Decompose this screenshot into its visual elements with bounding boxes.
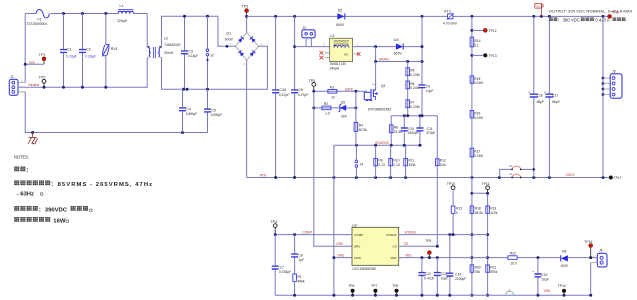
connector J6	[591, 249, 607, 296]
wire: bridge - output down to RTN rail	[246, 60, 248, 177]
svg-text:U3: U3	[352, 224, 356, 228]
resistor R10 0.13	[389, 145, 400, 177]
chassis ground symbol	[28, 133, 37, 144]
node: earth rail junctions	[31, 131, 184, 134]
node: D4 cathode junctions	[421, 45, 424, 63]
svg-text:TP8: TP8	[392, 284, 398, 288]
resistor R5 0.24M	[406, 62, 420, 116]
test point TP8	[392, 284, 398, 295]
resistor R4 62.5k	[354, 122, 367, 132]
node: R2/D5 branch junctions	[312, 106, 357, 109]
svg-text:R10: R10	[393, 159, 399, 163]
svg-text:TP12: TP12	[489, 29, 497, 33]
test point TP17	[609, 176, 622, 181]
wire: RTN rail	[247, 177, 611, 179]
svg-text:NOTES:: NOTES:	[14, 155, 29, 160]
svg-text:R14: R14	[475, 39, 481, 43]
svg-text:36.5k: 36.5k	[475, 211, 483, 215]
svg-text:TP7: TP7	[371, 284, 377, 288]
svg-text:+: +	[544, 90, 546, 94]
node: R19 column junctions	[486, 192, 489, 297]
svg-text:+: +	[532, 270, 534, 274]
capacitor C8 1uF	[291, 235, 304, 274]
node: L3 input junction	[293, 45, 296, 48]
svg-text:3.74M: 3.74M	[474, 154, 483, 158]
svg-text:DRV: DRV	[336, 242, 344, 246]
text: note line output voltage chinese	[14, 206, 92, 214]
svg-text:C12: C12	[425, 272, 431, 276]
wire: R2/D5 branch	[314, 107, 356, 109]
transistor Q1 STF28N60DM2	[364, 84, 391, 112]
resistor R19 120k	[486, 193, 498, 295]
text: note line input voltage chinese	[14, 180, 152, 188]
jumper J9 on RTN rail	[509, 172, 522, 179]
capacitor C17 68uF output	[544, 16, 560, 177]
svg-text:RTN: RTN	[260, 173, 267, 177]
resistor R13 0	[451, 206, 462, 235]
svg-text:20mH: 20mH	[164, 51, 174, 55]
node: RTN rail junctions	[274, 176, 604, 179]
node: neutral junctions	[43, 86, 108, 89]
svg-text:TP15: TP15	[584, 240, 592, 244]
svg-text:C4: C4	[186, 107, 191, 111]
svg-text:VOSNS: VOSNS	[386, 233, 397, 237]
node: COMP junction at C8 branch	[293, 233, 296, 236]
svg-text:SOURCE: SOURCE	[375, 141, 389, 145]
svg-text:+: +	[528, 90, 530, 94]
capacitor C6 0.47uF	[291, 47, 308, 178]
svg-text:STF28N60DM2: STF28N60DM2	[368, 108, 392, 112]
capacitor C2 0.33uF	[79, 14, 96, 88]
test point TP5	[309, 79, 316, 92]
PFC inductor L3 760817130 240uH	[319, 34, 360, 70]
node: GND junction	[332, 256, 335, 259]
svg-text:C16: C16	[279, 88, 286, 92]
capacitor C14 2200pF	[446, 235, 466, 296]
test point TP7	[371, 284, 377, 295]
test point TP15	[584, 240, 592, 258]
svg-text:J4: J4	[360, 162, 364, 166]
svg-text:30V: 30V	[341, 115, 348, 119]
test point TP6	[348, 284, 354, 295]
svg-text:R12: R12	[440, 159, 446, 163]
svg-text:DRAIN: DRAIN	[379, 57, 390, 61]
svg-text:TP9: TP9	[425, 239, 431, 243]
wire: J1 pin3 down to earth rail	[25, 92, 207, 133]
resistor R11 453k	[404, 145, 416, 177]
resistor R14 5.1	[470, 37, 481, 47]
wire: gate line from TP5 to Q1 gate	[314, 90, 367, 92]
svg-text:TP2: TP2	[39, 76, 46, 80]
svg-text:68µF: 68µF	[552, 100, 560, 104]
svg-text:10.0: 10.0	[510, 261, 517, 265]
svg-text:TP4: TP4	[270, 220, 277, 224]
svg-text:C15: C15	[541, 273, 547, 277]
svg-text:TP1: TP1	[39, 53, 46, 57]
svg-text:J6: J6	[599, 249, 603, 253]
svg-text:VOSNS: VOSNS	[405, 231, 416, 235]
svg-text:37215000001: 37215000001	[27, 22, 48, 26]
svg-text:UCC28056DBV: UCC28056DBV	[352, 267, 376, 271]
svg-text:0.47µF: 0.47µF	[424, 276, 434, 280]
resistor R18 36.5k	[470, 206, 483, 215]
svg-text:C9: C9	[426, 84, 430, 88]
wire: neutral from J1 pin2	[18, 57, 147, 87]
wire: source/GND column down to bottom rail	[333, 145, 335, 295]
text: note line zhushi (annotation)	[14, 167, 28, 172]
svg-text:0.13: 0.13	[378, 163, 385, 167]
diode D4 600V boost	[394, 38, 422, 56]
svg-text:TP3: TP3	[242, 4, 249, 8]
svg-text:C13: C13	[441, 272, 447, 276]
svg-text:R13: R13	[456, 207, 462, 211]
svg-text:R3: R3	[330, 86, 334, 90]
jumper J7 on ground rail	[505, 289, 514, 296]
svg-text:C6: C6	[298, 88, 303, 92]
resistor R6 0.24M	[406, 81, 420, 90]
capacitor C15 10uF	[532, 258, 549, 296]
svg-text:R2: R2	[324, 102, 328, 106]
svg-text:600V: 600V	[225, 37, 234, 41]
text: note line 63Hz	[17, 191, 43, 197]
wire: left vertical from fuse to J1 pin1	[24, 14, 26, 83]
svg-text:R21: R21	[490, 266, 496, 270]
svg-text:C7: C7	[280, 266, 284, 270]
wire: L3 input node to L3 pin2	[295, 46, 330, 48]
resistor R2 1.0	[322, 102, 331, 115]
svg-text:240µH: 240µH	[330, 66, 340, 70]
svg-text:390 VDC: 390 VDC	[563, 18, 580, 23]
svg-text:75k: 75k	[475, 270, 481, 274]
svg-text:R8: R8	[394, 126, 398, 130]
svg-text:C14: C14	[455, 273, 461, 277]
diode D8 100V	[560, 249, 569, 267]
svg-text:OUTPUT: 390 VDC NOMINAL, 0.423: OUTPUT: 390 VDC NOMINAL, 0.423 A MAX	[549, 8, 633, 13]
inductor L1 220uH	[117, 4, 134, 23]
svg-text:COMP: COMP	[302, 231, 312, 235]
svg-text:R6: R6	[410, 82, 414, 86]
svg-text:VOUT-: VOUT-	[566, 173, 576, 177]
wire: drain down to Q1	[375, 62, 377, 89]
jumper J8 bypass link	[500, 164, 535, 178]
svg-text:VDD: VDD	[390, 256, 397, 260]
svg-text:L3: L3	[331, 34, 335, 38]
svg-text:J2: J2	[210, 54, 214, 58]
wire: gate node down through R4 to source rail	[355, 91, 357, 145]
svg-text:0.24M: 0.24M	[410, 86, 419, 90]
svg-text:0: 0	[456, 211, 458, 215]
svg-text:J9: J9	[509, 172, 512, 176]
connector J3	[302, 26, 315, 47]
power flag VOUT	[535, 3, 544, 16]
svg-text:R19: R19	[490, 207, 496, 211]
svg-text:Neutral: Neutral	[29, 83, 40, 87]
svg-text:VOUT: VOUT	[535, 4, 543, 8]
svg-text:TP13: TP13	[489, 54, 497, 58]
svg-text:GND: GND	[354, 256, 362, 260]
svg-text:GND: GND	[337, 254, 345, 258]
svg-text:DRV: DRV	[354, 244, 360, 248]
svg-text:1.0: 1.0	[325, 111, 330, 115]
node: gate line junctions	[312, 90, 357, 93]
svg-text:R9: R9	[378, 159, 382, 163]
svg-text:2200pF: 2200pF	[455, 277, 466, 281]
svg-text:R11: R11	[408, 159, 414, 163]
resistor R7 0.24M	[406, 100, 420, 109]
wire: DC+ bus from bridge to output	[247, 15, 610, 17]
resistor R8 24.3k	[389, 116, 402, 146]
test point TP14	[558, 284, 566, 295]
wire: drain node line	[376, 47, 422, 62]
resistor R17 3.74M	[470, 148, 483, 158]
node: drain junctions	[374, 60, 409, 63]
svg-text:J1: J1	[10, 75, 14, 79]
wire: CS line down from sense rail	[436, 116, 438, 247]
svg-text:VDD: VDD	[405, 254, 412, 258]
node: sense top rail junctions	[403, 114, 424, 117]
svg-text:10µF: 10µF	[541, 278, 549, 282]
resistor R20 75k	[470, 265, 481, 274]
svg-text:0.33µF: 0.33µF	[66, 54, 77, 58]
wire: GND pin wire	[334, 257, 352, 259]
resistor R21 590k	[486, 265, 498, 274]
node: CS junction	[436, 245, 439, 248]
test point TP1	[24, 53, 46, 66]
svg-text:R20: R20	[475, 266, 481, 270]
svg-text:453k: 453k	[408, 163, 416, 167]
wire: source rail	[334, 144, 422, 146]
svg-text:0.13: 0.13	[393, 163, 400, 167]
svg-text:R7: R7	[410, 101, 414, 105]
svg-text:10: 10	[331, 95, 335, 99]
node: top rail junctions C1 C2 RV1	[62, 12, 107, 15]
svg-text:12µF: 12µF	[426, 89, 434, 93]
test point TP11	[482, 182, 490, 193]
svg-text:R18: R18	[475, 207, 481, 211]
node: bottom rail junctions	[293, 294, 592, 297]
wire: L1 to L2 winding1 top	[134, 14, 148, 48]
wire: CS line	[399, 245, 438, 247]
svg-text:R5: R5	[410, 69, 414, 73]
svg-text:L2: L2	[164, 36, 168, 40]
svg-text:C11: C11	[427, 127, 433, 131]
node: source rail junctions	[355, 144, 422, 147]
svg-text:D2: D2	[338, 8, 343, 12]
capacitor C16 0.47uF (bulk filter)	[272, 16, 289, 177]
svg-text:TP10: TP10	[447, 182, 455, 186]
svg-text:R17: R17	[474, 150, 480, 154]
wire: divider tap link to TP11	[472, 192, 488, 194]
wire: AC line top rail to L1	[64, 13, 119, 15]
wire: L2 winding2 bottom to bridge AC2	[162, 46, 268, 89]
capacitor C4 1000pF	[179, 89, 197, 132]
resistor R22 10.0	[508, 252, 517, 266]
resistor R12 5.0k	[436, 159, 447, 167]
svg-text:C16: C16	[537, 93, 543, 97]
wire: CS sense top rail	[391, 115, 437, 117]
zener diode D5 30V	[339, 101, 348, 119]
svg-text:0.24M: 0.24M	[410, 73, 419, 77]
test point +Vout	[608, 10, 619, 18]
node: VDD line junctions	[420, 256, 592, 259]
test point TP2	[39, 76, 46, 88]
connector J1	[9, 75, 25, 95]
test point TP3	[242, 4, 249, 18]
svg-text:0.47µF: 0.47µF	[279, 93, 290, 97]
diode D2 600V bypass	[336, 8, 345, 26]
node: drain tap junction on L3 output	[374, 45, 377, 48]
svg-text:- 63Hz: - 63Hz	[17, 191, 34, 197]
varistor RV1	[102, 14, 118, 88]
svg-text:220µH: 220µH	[117, 19, 128, 23]
svg-text:R16: R16	[474, 111, 480, 115]
thermistor KT1 4.70 ohm	[443, 9, 457, 25]
svg-text:85VRMS - 265VRMS, 47Hz: 85VRMS - 265VRMS, 47Hz	[58, 182, 153, 188]
wire: bridge + output up to DC bus	[246, 16, 248, 32]
svg-text:C2: C2	[86, 48, 91, 52]
wire: D4 cathode column up to DC bus and down to C9	[421, 16, 423, 115]
resistor R3 10	[328, 86, 337, 100]
capacitor C7 0.033uF	[272, 235, 291, 296]
svg-text:Q1: Q1	[381, 84, 386, 88]
test point TP10	[447, 182, 455, 206]
svg-text:Line: Line	[29, 60, 35, 64]
wire: L2 winding2 top to bridge AC1	[162, 16, 236, 47]
svg-text:1µF: 1µF	[298, 258, 304, 262]
connector J5	[602, 16, 622, 177]
svg-text:F1: F1	[38, 18, 42, 22]
wire: DC bus down to L3 input node	[294, 16, 296, 46]
svg-text:R22: R22	[510, 252, 516, 256]
resistor R1 499k	[293, 274, 305, 295]
node: AC2 wire junctions	[182, 88, 209, 91]
svg-text:TP14: TP14	[558, 284, 566, 288]
capacitor C9 12uF	[419, 84, 434, 92]
node: divider column junctions	[470, 29, 473, 297]
svg-text:1000pF: 1000pF	[211, 113, 223, 117]
resistor R15 0.24M	[470, 76, 483, 85]
svg-text:KT1: KT1	[444, 9, 451, 13]
svg-text:499k: 499k	[297, 279, 305, 283]
svg-text:744825320: 744825320	[164, 43, 181, 47]
node: junction on AC1 wire near bridge	[226, 45, 229, 48]
wire: DRV column from gate line down to controller	[314, 91, 352, 246]
capacitor C10 3300pF	[401, 116, 419, 146]
svg-text:VDD: VDD	[544, 289, 551, 293]
capacitor C11 470pF	[416, 116, 435, 146]
svg-text:0.22µF: 0.22µF	[188, 54, 199, 58]
node: VOSNS junctions	[448, 233, 454, 236]
svg-text:J8: J8	[509, 164, 512, 168]
svg-text:TP11: TP11	[482, 182, 490, 186]
svg-text:390VDC: 390VDC	[45, 208, 68, 214]
node: DC bus junctions	[274, 15, 604, 18]
test point TP12	[472, 28, 497, 33]
svg-text:C8: C8	[298, 253, 302, 257]
svg-text:R1: R1	[297, 275, 301, 279]
bridge rectifier D1 600V	[225, 32, 263, 66]
node: top link junctions C3 J2	[183, 15, 209, 18]
resistor R9 0.13	[374, 145, 385, 177]
svg-text:J3: J3	[302, 26, 306, 30]
svg-text:D5: D5	[341, 101, 345, 105]
capacitor C1 0.33uF	[60, 14, 77, 88]
svg-text:3300pF: 3300pF	[408, 131, 419, 135]
text: output rating chinese	[549, 17, 625, 22]
jumper J4	[355, 145, 363, 177]
wire: feedback divider column x=471.9	[471, 16, 473, 295]
capacitor C16 68uF output	[528, 16, 544, 177]
svg-text:470pF: 470pF	[426, 131, 435, 135]
test point TP13	[472, 53, 497, 58]
test point TP4	[270, 220, 277, 236]
ic U3 UCC28056DBV	[352, 224, 399, 271]
svg-text:68µF: 68µF	[537, 100, 545, 104]
svg-text:TP5: TP5	[309, 79, 316, 83]
svg-text:COMP: COMP	[354, 233, 363, 237]
svg-text:TP6: TP6	[348, 284, 354, 288]
wire: L3 pin3 to D4 anode	[353, 46, 396, 48]
svg-text:J7: J7	[508, 289, 511, 293]
svg-text:600V: 600V	[336, 23, 345, 27]
svg-text:R4: R4	[359, 124, 363, 128]
svg-text:C17: C17	[552, 93, 558, 97]
resistor R16 0.24M	[470, 111, 483, 120]
wire: bottom ground rail	[275, 294, 591, 296]
text: note line max power chinese	[14, 217, 68, 225]
svg-text:1000pF: 1000pF	[186, 112, 198, 116]
svg-text:C5: C5	[211, 108, 216, 112]
svg-text:0.24M: 0.24M	[474, 116, 483, 120]
svg-text:D1: D1	[227, 32, 232, 36]
test point TP9	[425, 239, 431, 258]
svg-text:TP17: TP17	[614, 176, 622, 180]
jumper J2	[206, 16, 214, 89]
capacitor C13 10uF	[434, 258, 448, 296]
svg-text:16W: 16W	[53, 219, 66, 225]
svg-text:0.24M: 0.24M	[474, 81, 483, 85]
capacitor C5 1000pF	[204, 89, 222, 132]
svg-text:D4: D4	[394, 38, 399, 42]
fuse F1	[25, 10, 63, 26]
svg-text:5.1: 5.1	[474, 43, 479, 47]
svg-text:GATE: GATE	[345, 87, 353, 91]
svg-text:J5: J5	[612, 70, 616, 74]
svg-text:CS: CS	[392, 244, 396, 248]
svg-text:0.033µF: 0.033µF	[279, 270, 291, 274]
capacitor C12 0.47uF	[418, 258, 434, 296]
capacitor C3 0.22uF	[181, 16, 198, 89]
svg-text:590k: 590k	[490, 270, 498, 274]
wire: VDD line to J6	[399, 257, 598, 259]
svg-text:L1: L1	[120, 4, 124, 8]
svg-text:CS: CS	[404, 242, 408, 246]
svg-text:C10: C10	[408, 127, 414, 131]
svg-text:D8: D8	[562, 249, 566, 253]
svg-text:100V: 100V	[560, 264, 569, 268]
svg-text:C1: C1	[67, 48, 72, 52]
svg-text:10µF: 10µF	[441, 276, 449, 280]
svg-text:62.5k: 62.5k	[359, 128, 367, 132]
wire: COMP line	[275, 234, 352, 236]
svg-text:0.24M: 0.24M	[410, 105, 419, 109]
svg-text:4.70 ohm: 4.70 ohm	[443, 21, 457, 25]
svg-text:NC: NC	[344, 53, 348, 57]
wire: VOSNS line	[399, 234, 488, 236]
svg-text:RV1: RV1	[111, 47, 118, 51]
svg-text:600V: 600V	[394, 52, 403, 56]
svg-text:5.0k: 5.0k	[440, 163, 447, 167]
